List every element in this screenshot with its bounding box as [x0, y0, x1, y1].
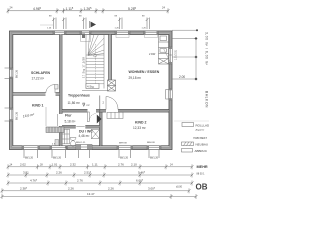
room label du/wc: [79, 129, 94, 138]
svg-text:11,86 m²: 11,86 m²: [68, 101, 80, 105]
svg-text:2.76: 2.76: [77, 179, 83, 183]
interior wall V2: [100, 112, 102, 146]
svg-text:88/1.26: 88/1.26: [16, 111, 19, 120]
svg-text:ABBRUC: ABBRUC: [195, 149, 208, 153]
entrance arrow marker: [91, 22, 97, 28]
svg-text:±0,00: ±0,00: [176, 186, 183, 189]
bath wc: [71, 141, 76, 147]
svg-text:13.47: 13.47: [87, 192, 95, 196]
entrance vestibule step: [81, 35, 91, 42]
svg-text:3,00 m² / 6,00 m²: 3,00 m² / 6,00 m²: [205, 32, 209, 66]
svg-text:ROLLLAD: ROLLLAD: [196, 124, 210, 128]
top wall window 3: [144, 31, 159, 35]
balcony leader top: [172, 29, 198, 31]
left wall window upper: [5, 68, 19, 79]
svg-text:Flur: Flur: [65, 114, 72, 118]
kind1 door leaf: [56, 114, 58, 126]
svg-text:2.10: 2.10: [131, 163, 137, 167]
kitchen balcony door swing: [164, 49, 171, 63]
room label treppenhaus: [68, 93, 90, 104]
room label kind1: [22, 104, 43, 119]
svg-text:88/1.26: 88/1.26: [53, 157, 62, 160]
stair lower flight box: [86, 84, 99, 89]
right wall window: [166, 89, 173, 101]
svg-text:DU / WC: DU / WC: [79, 129, 93, 133]
radiator under top window 2: [116, 35, 129, 38]
flur door: [87, 112, 95, 122]
svg-text:70/80 BEST: 70/80 BEST: [193, 136, 207, 140]
bottom wall window 2: [50, 144, 68, 160]
svg-text:2.26: 2.26: [68, 187, 74, 191]
bottom wall window 1: [22, 146, 40, 160]
duwc door leaf: [76, 126, 84, 128]
bottom dim row 3 labels: [30, 179, 144, 183]
interior wall H1 schlafen/kind1: [13, 93, 46, 95]
window axis ticks above wall, entrance door edge: [79, 16, 86, 30]
bath washbasin: [70, 138, 76, 141]
bottom dim row 3: [7, 181, 194, 186]
svg-text:NEUBAU: NEUBAU: [196, 143, 209, 147]
svg-text:BRH 88: BRH 88: [119, 143, 127, 145]
bottom wall window 4: [147, 142, 161, 160]
svg-text:88/1.26: 88/1.26: [150, 157, 159, 160]
bottom dim row 5 overall: [1, 194, 198, 199]
bottom dim row 4: [1, 188, 191, 193]
svg-text:4 Stg.: 4 Stg.: [87, 85, 95, 89]
svg-text:1.11: 1.11: [92, 163, 98, 167]
svg-text:5,18 m²: 5,18 m²: [65, 120, 76, 124]
bottom dim row 1 labels: [10, 163, 174, 167]
window axis ticks above wall, window2: [115, 16, 123, 30]
bottom dim row 3 extra ticks: [47, 181, 122, 186]
legend separator: [174, 120, 209, 122]
svg-text:2.00: 2.00: [179, 75, 185, 79]
svg-text:3.51: 3.51: [23, 171, 29, 175]
top dimension chain: [7, 8, 170, 13]
room label schlafen: [31, 71, 51, 81]
svg-text:1.01/2.01: 1.01/2.01: [175, 49, 178, 60]
legend item 3: [182, 149, 208, 154]
svg-text:MEHR: MEHR: [197, 165, 208, 169]
legend item 2: [182, 142, 209, 147]
svg-text:BRH 1.31: BRH 1.31: [76, 142, 86, 144]
kind2 door: [106, 97, 118, 110]
left wall window lower: [5, 108, 19, 121]
svg-text:17 Stg 17,5/28: 17 Stg 17,5/28: [82, 57, 86, 78]
room label flur: [65, 114, 76, 124]
balcony outer edge: [195, 39, 197, 80]
svg-text:2.76: 2.76: [118, 163, 124, 167]
right wall balcony door: [169, 47, 178, 64]
svg-text:88 03 1: 88 03 1: [197, 172, 206, 175]
outer wall: [11, 33, 170, 148]
stair winders: [88, 35, 104, 56]
stair wall pier: [82, 34, 85, 39]
wall stub above kind2 door: [99, 96, 101, 113]
svg-text:BALKON: BALKON: [205, 91, 209, 108]
top dimension labels: [10, 6, 166, 11]
svg-text:2.26: 2.26: [56, 171, 62, 175]
svg-text:KIND 1: KIND 1: [32, 104, 44, 108]
entrance door triangle: [97, 115, 102, 124]
kind2 wardrobe: [107, 112, 123, 118]
svg-text:OB: OB: [196, 183, 208, 192]
kitchen counter column: [159, 35, 169, 65]
bottom wall bath window: [76, 142, 92, 158]
staircase well: [82, 35, 109, 91]
bath shower right: [92, 129, 100, 138]
interior wall V1: [60, 35, 62, 115]
legend item 1: [182, 123, 210, 132]
svg-text:Angaben: Angaben: [195, 129, 206, 132]
svg-text:17,22 m²: 17,22 m²: [32, 77, 45, 81]
balcony middle line: [172, 56, 196, 58]
interior wall H2 middle corridor wall: [62, 110, 88, 112]
chimney: [108, 80, 116, 91]
svg-text:WOHNEN / ESSEN: WOHNEN / ESSEN: [129, 70, 160, 74]
svg-text:KIND 2: KIND 2: [135, 120, 147, 124]
top wall entrance door: [80, 31, 91, 35]
bottom dim row 5 label: [87, 186, 183, 197]
svg-text:4,46 m²: 4,46 m²: [79, 134, 90, 138]
bottom dim row 1: [7, 164, 194, 169]
balcony top edge: [172, 37, 197, 40]
schlafen door: [46, 84, 58, 93]
svg-text:m²: m²: [87, 104, 90, 107]
svg-text:88/1.26: 88/1.26: [25, 157, 34, 160]
svg-text:BRH 88: BRH 88: [147, 142, 155, 144]
window axis ticks above wall, window3: [142, 16, 150, 30]
kind1 furniture: [46, 107, 64, 133]
svg-text:2.32: 2.32: [70, 163, 76, 167]
svg-text:Treppenhaus: Treppenhaus: [68, 93, 90, 97]
top wall window 2: [115, 31, 130, 35]
stair treads: [86, 55, 104, 84]
balcony bottom dim: [172, 75, 197, 81]
svg-text:12,33 m²: 12,33 m²: [133, 126, 146, 130]
svg-text:29,18 m²: 29,18 m²: [129, 76, 142, 80]
room label wohnen/essen: [129, 70, 160, 80]
svg-text:1.01: 1.01: [52, 163, 58, 167]
top wall window 1: [53, 31, 66, 35]
svg-text:2.26: 2.26: [108, 187, 114, 191]
svg-text:SCHLAFEN: SCHLAFEN: [31, 71, 51, 75]
interior wall H3 flur/duwc: [62, 126, 76, 128]
interior wall V3: [109, 35, 111, 89]
room label kind2: [133, 120, 147, 130]
window axis ticks above wall, window1 left edge: [40, 16, 56, 30]
bath cupboard left: [62, 129, 70, 144]
bottom dim row 2 extra ticks: [25, 173, 92, 178]
svg-text:88/1.26: 88/1.26: [16, 69, 19, 78]
shower symbol treppenhaus: [83, 103, 90, 107]
bottom dim row 2: [7, 173, 194, 178]
bottom wall window 3: [117, 143, 133, 160]
svg-text:88/1.26: 88/1.26: [120, 157, 129, 160]
bottom dim row 4 labels: [20, 187, 156, 191]
svg-text:2.02: 2.02: [20, 163, 26, 167]
radiator under top window 3: [145, 35, 158, 38]
kind1 small cabinet: [55, 140, 59, 146]
stair walk line: [94, 44, 97, 88]
window axis ticks above wall, window1 right edge: [47, 18, 66, 30]
svg-text:2 DW: 2 DW: [149, 53, 156, 56]
bottom dim row 2 labels: [23, 171, 146, 175]
